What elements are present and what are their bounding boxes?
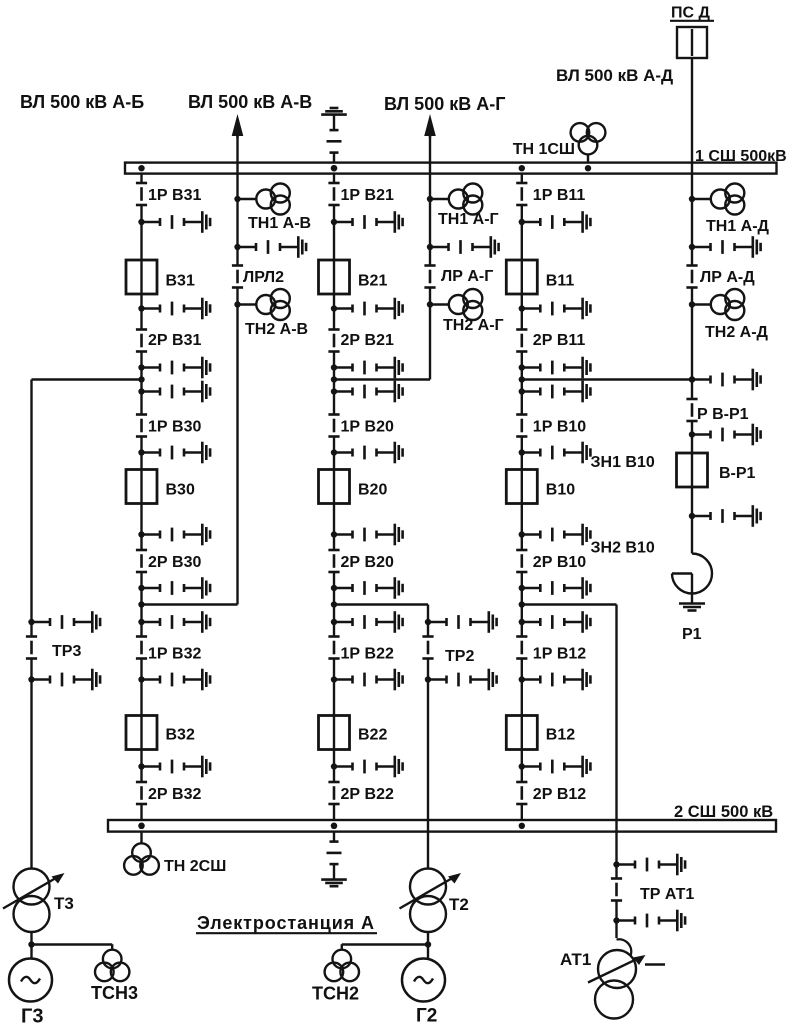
label 1Р В32 xyxy=(148,646,201,663)
wire АТ1 branch xyxy=(522,605,617,939)
svg-text:Г3: Г3 xyxy=(21,1006,43,1025)
station service transformer ТСН3 xyxy=(95,944,129,981)
node 3B xyxy=(519,601,525,607)
svg-text:В31: В31 xyxy=(166,273,195,290)
disconnector ТР АТ1 xyxy=(611,879,622,901)
grounding switch xyxy=(138,577,210,599)
label 1Р В31 xyxy=(148,187,201,204)
svg-text:В11: В11 xyxy=(546,273,575,290)
title ВЛ 500 кВ А-Г xyxy=(384,94,505,114)
grounding switch xyxy=(138,211,210,233)
label 1Р В21 xyxy=(341,187,394,204)
svg-text:ТСН3: ТСН3 xyxy=(91,983,138,1003)
label ЛР А-Д xyxy=(700,269,755,286)
label В-Р1 xyxy=(719,465,756,482)
grounding switch xyxy=(331,381,403,403)
svg-text:ЗН2 В10: ЗН2 В10 xyxy=(591,540,655,557)
voltage transformer ТН2 А-В xyxy=(234,289,289,320)
title Электростанция А xyxy=(196,913,377,933)
disconnector 1Р В22 xyxy=(328,637,339,659)
bus 2 grounding switch xyxy=(321,823,347,887)
svg-text:АТ1: АТ1 xyxy=(560,950,591,969)
wire Т2 branch xyxy=(334,605,428,869)
disconnector 2Р В11 xyxy=(516,330,527,352)
svg-text:2Р В30: 2Р В30 xyxy=(148,554,201,571)
breaker В32 xyxy=(126,716,157,750)
grounding switch xyxy=(28,611,100,633)
disconnector 1Р В30 xyxy=(136,415,147,437)
label Г2 xyxy=(416,1006,437,1027)
label 2Р В12 xyxy=(533,786,586,803)
grounding switch xyxy=(138,611,210,633)
svg-text:1Р В22: 1Р В22 xyxy=(341,646,394,663)
grounding switch xyxy=(519,211,591,233)
label Г3 xyxy=(21,1006,43,1028)
node column 1 on busbar 1 xyxy=(138,165,144,171)
svg-text:2Р В32: 2Р В32 xyxy=(148,786,201,803)
disconnector ТР3 xyxy=(26,637,37,659)
voltage transformer ТН 2СШ xyxy=(124,823,159,875)
node column 2 on busbar 1 xyxy=(331,165,337,171)
svg-text:1 СШ 500кВ: 1 СШ 500кВ xyxy=(695,148,787,165)
svg-text:1Р В10: 1Р В10 xyxy=(533,419,586,436)
svg-text:ТН1 А-Г: ТН1 А-Г xyxy=(438,211,499,228)
label 2Р В31 xyxy=(148,332,201,349)
grounding switch xyxy=(519,298,591,320)
wire column В11/В10/В12 xyxy=(521,173,523,820)
label ТН2 А-Г xyxy=(443,317,504,334)
breaker В-Р1 xyxy=(677,453,708,487)
reactor Р1 xyxy=(672,554,712,603)
svg-text:2 СШ 500 кВ: 2 СШ 500 кВ xyxy=(674,803,773,821)
label АТ1 xyxy=(560,950,591,969)
breaker В20 xyxy=(319,470,350,504)
label ТН2 А-Д xyxy=(705,324,769,341)
label ТСН2 xyxy=(312,984,359,1004)
svg-text:Т2: Т2 xyxy=(449,895,469,914)
svg-text:Т3: Т3 xyxy=(54,894,74,913)
grounding switch ЗН2 В10 xyxy=(519,524,591,546)
label ТР2 xyxy=(445,648,474,665)
grounding switch xyxy=(28,669,100,691)
grounding switch xyxy=(331,357,403,379)
svg-text:ТР АТ1: ТР АТ1 xyxy=(640,886,694,903)
wire Т3 branch xyxy=(32,380,142,869)
disconnector 2Р В22 xyxy=(328,782,339,804)
grounding switch xyxy=(138,357,210,379)
grounding switch xyxy=(331,211,403,233)
generator Г3 xyxy=(9,959,52,1002)
disconnector 2Р В12 xyxy=(516,782,527,804)
wire ВЛ 500 кВ А-В xyxy=(142,132,238,605)
svg-text:2Р В12: 2Р В12 xyxy=(533,786,586,803)
label 1Р В12 xyxy=(533,646,586,663)
label 2Р В11 xyxy=(533,332,586,349)
label В20 xyxy=(358,482,387,499)
voltage transformer ТН1 А-Г xyxy=(427,184,483,215)
svg-text:2Р В21: 2Р В21 xyxy=(341,332,394,349)
label ЗН1 В10 xyxy=(591,454,655,471)
svg-text:ВЛ 500 кВ А-В: ВЛ 500 кВ А-В xyxy=(188,92,312,112)
disconnector 2Р В32 xyxy=(136,782,147,804)
voltage transformer ТН2 А-Д xyxy=(689,289,745,320)
svg-text:ПС Д: ПС Д xyxy=(671,5,711,22)
grounding switch xyxy=(519,577,591,599)
grounding switch xyxy=(425,669,497,691)
busbar 2СШ 500кВ xyxy=(108,820,776,832)
svg-text:ЛР А-Д: ЛР А-Д xyxy=(700,269,755,286)
busbar 1СШ 500кВ xyxy=(125,163,777,174)
label В12 xyxy=(546,727,575,744)
grounding switch xyxy=(331,442,403,464)
node column 2 on busbar 2 xyxy=(331,823,337,829)
svg-text:ТСН2: ТСН2 xyxy=(312,984,359,1004)
disconnector 1Р В12 xyxy=(516,637,527,659)
ground of Р1 xyxy=(679,604,705,611)
label 2Р В20 xyxy=(341,554,394,571)
svg-text:1Р В12: 1Р В12 xyxy=(533,646,586,663)
svg-text:1Р В31: 1Р В31 xyxy=(148,187,201,204)
svg-text:ТН 2СШ: ТН 2СШ xyxy=(164,858,226,875)
label ТН1 А-Д xyxy=(706,218,770,235)
grounding switch xyxy=(519,669,591,691)
svg-text:ВЛ 500 кВ А-Б: ВЛ 500 кВ А-Б xyxy=(20,92,144,112)
label 1Р В20 xyxy=(341,419,394,436)
grounding switch xyxy=(138,442,210,464)
disconnector 2Р В31 xyxy=(136,330,147,352)
disconnector Р В-Р1 xyxy=(686,399,697,421)
breaker В31 xyxy=(126,260,157,294)
label ТН 1СШ xyxy=(513,141,575,158)
grounding switch xyxy=(519,756,591,778)
grounding switch xyxy=(331,611,403,633)
svg-text:ТН1 А-В: ТН1 А-В xyxy=(248,215,311,232)
label ЛРЛ2 xyxy=(243,269,284,286)
voltage transformer ТН2 А-Г xyxy=(427,289,483,320)
wire column В31/В30/В32 xyxy=(140,173,142,820)
disconnector 1Р В11 xyxy=(516,183,527,205)
disconnector 1Р В10 xyxy=(516,415,527,437)
grounding switch xyxy=(138,756,210,778)
line arrow ВЛ А-В xyxy=(232,114,244,138)
wire ВЛ 500 кВ А-Г xyxy=(334,132,430,380)
svg-text:ТН2 А-Д: ТН2 А-Д xyxy=(705,324,769,341)
label В10 xyxy=(546,482,575,499)
label 1Р В10 xyxy=(533,419,586,436)
title ВЛ 500 кВ А-Б xyxy=(20,92,144,112)
svg-text:ВЛ 500 кВ А-Д: ВЛ 500 кВ А-Д xyxy=(556,66,673,85)
svg-text:ВЛ 500 кВ А-Г: ВЛ 500 кВ А-Г xyxy=(384,94,505,114)
line arrow ВЛ А-Г xyxy=(424,114,436,138)
svg-text:В32: В32 xyxy=(166,727,195,744)
grounding switch xyxy=(331,756,403,778)
svg-text:Г2: Г2 xyxy=(416,1006,437,1025)
node 3A xyxy=(519,376,525,382)
disconnector 1Р В31 xyxy=(136,183,147,205)
label В32 xyxy=(166,727,195,744)
node 2A xyxy=(331,376,337,382)
line disconnector ЛР А-Д xyxy=(686,266,697,288)
disconnector 2Р В10 xyxy=(516,550,527,572)
node column 1 on busbar 2 xyxy=(138,823,144,829)
label Т3 xyxy=(54,894,74,913)
svg-text:1Р В30: 1Р В30 xyxy=(148,419,201,436)
title ВЛ 500 кВ А-В xyxy=(188,92,312,112)
label В11 xyxy=(546,273,575,290)
node 1A xyxy=(138,376,144,382)
label busbar 1 xyxy=(695,148,787,165)
title ВЛ 500 кВ А-Д xyxy=(556,66,673,85)
svg-text:1Р В32: 1Р В32 xyxy=(148,646,201,663)
disconnector 1Р В20 xyxy=(328,415,339,437)
grounding switch xyxy=(331,577,403,599)
grounding switch xyxy=(427,236,499,258)
label ТР АТ1 xyxy=(640,886,694,903)
label ЗН2 В10 xyxy=(591,540,655,557)
grounding switch xyxy=(331,524,403,546)
label В30 xyxy=(166,482,195,499)
disconnector 1Р В21 xyxy=(328,183,339,205)
svg-text:1Р В20: 1Р В20 xyxy=(341,419,394,436)
label ТН2 А-В xyxy=(245,321,308,338)
breaker В10 xyxy=(506,470,537,504)
svg-text:В20: В20 xyxy=(358,482,387,499)
wire Т3-Г3 xyxy=(28,932,112,959)
node 2B xyxy=(331,601,337,607)
disconnector 2Р В30 xyxy=(136,550,147,572)
label 2Р В10 xyxy=(533,554,586,571)
node column 3 on busbar 2 xyxy=(519,823,525,829)
svg-text:В12: В12 xyxy=(546,727,575,744)
svg-text:2Р В11: 2Р В11 xyxy=(533,332,586,349)
svg-text:2Р В20: 2Р В20 xyxy=(341,554,394,571)
wire Т2-Г2 xyxy=(342,932,431,959)
svg-text:ТН 1СШ: ТН 1СШ xyxy=(513,141,575,158)
label ТР3 xyxy=(52,643,81,660)
label В22 xyxy=(358,727,387,744)
grounding switch xyxy=(519,611,591,633)
label Т2 xyxy=(449,895,469,914)
label 1Р В11 xyxy=(533,187,586,204)
wire column В21/В20/В22 xyxy=(333,173,335,820)
svg-text:ЛР А-Г: ЛР А-Г xyxy=(441,268,493,285)
grounding switch xyxy=(331,298,403,320)
grounding switch xyxy=(138,524,210,546)
breaker В11 xyxy=(506,260,537,294)
grounding switch xyxy=(689,424,761,446)
bus 1 grounding switch xyxy=(321,108,347,171)
breaker В12 xyxy=(506,716,537,750)
svg-text:Р В-Р1: Р В-Р1 xyxy=(697,406,749,423)
grounding switch xyxy=(138,669,210,691)
label ТН1 А-В xyxy=(248,215,311,232)
breaker В30 xyxy=(126,470,157,504)
label ТН1 А-Г xyxy=(438,211,499,228)
label 1Р В22 xyxy=(341,646,394,663)
node column 3 on busbar 1 xyxy=(519,165,525,171)
wire ВЛ 500 кВ А-Д xyxy=(522,58,692,554)
disconnector ТР2 xyxy=(422,637,433,659)
transformer Т2 xyxy=(400,869,462,933)
breaker В21 xyxy=(319,260,350,294)
svg-text:В21: В21 xyxy=(358,273,387,290)
svg-text:2Р В22: 2Р В22 xyxy=(341,786,394,803)
grounding switch xyxy=(689,236,761,258)
svg-text:В-Р1: В-Р1 xyxy=(719,465,756,482)
svg-text:В22: В22 xyxy=(358,727,387,744)
label Р В-Р1 xyxy=(697,406,749,423)
label ТН 2СШ xyxy=(164,858,226,875)
label ЛР А-Г xyxy=(441,268,493,285)
voltage transformer ТН1 А-В xyxy=(234,184,289,215)
disconnector 2Р В20 xyxy=(328,550,339,572)
svg-text:В30: В30 xyxy=(166,482,195,499)
substation ПС Д xyxy=(677,27,707,58)
grounding switch xyxy=(519,381,591,403)
svg-text:ТР2: ТР2 xyxy=(445,648,474,665)
autotransformer АТ1 xyxy=(588,939,665,1018)
label В21 xyxy=(358,273,387,290)
grounding switch xyxy=(519,357,591,379)
label 2Р В32 xyxy=(148,786,201,803)
grounding switch xyxy=(613,854,685,876)
svg-text:В10: В10 xyxy=(546,482,575,499)
station service transformer ТСН2 xyxy=(325,944,359,981)
label 2Р В21 xyxy=(341,332,394,349)
disconnector 2Р В21 xyxy=(328,330,339,352)
svg-text:Р1: Р1 xyxy=(682,626,702,643)
node 1B xyxy=(138,601,144,607)
breaker В22 xyxy=(319,716,350,750)
generator Г2 xyxy=(402,959,445,1002)
node В-Р1 tap xyxy=(689,376,695,382)
line disconnector ЛР А-Г xyxy=(424,266,435,288)
svg-text:ТР3: ТР3 xyxy=(52,643,81,660)
voltage transformer ТН1 А-Д xyxy=(689,184,745,215)
voltage transformer ТН 1СШ xyxy=(571,123,606,171)
svg-text:ЛРЛ2: ЛРЛ2 xyxy=(243,269,284,286)
svg-text:ТН2 А-Г: ТН2 А-Г xyxy=(443,317,504,334)
svg-text:1Р В11: 1Р В11 xyxy=(533,187,586,204)
grounding switch xyxy=(613,910,685,932)
svg-text:1Р В21: 1Р В21 xyxy=(341,187,394,204)
line disconnector ЛРЛ2 xyxy=(232,266,243,288)
label Р1 xyxy=(682,626,702,643)
svg-text:ЗН1 В10: ЗН1 В10 xyxy=(591,454,655,471)
grounding switch xyxy=(234,236,306,258)
grounding switch xyxy=(689,505,761,527)
grounding switch xyxy=(689,369,761,391)
svg-text:ТН2 А-В: ТН2 А-В xyxy=(245,321,308,338)
transformer Т3 xyxy=(3,869,65,933)
svg-text:2Р В10: 2Р В10 xyxy=(533,554,586,571)
grounding switch xyxy=(425,611,497,633)
label 2Р В30 xyxy=(148,554,201,571)
grounding switch xyxy=(331,669,403,691)
svg-text:ТН1 А-Д: ТН1 А-Д xyxy=(706,218,770,235)
title ПС Д xyxy=(670,5,714,22)
label 1Р В30 xyxy=(148,419,201,436)
label 2Р В22 xyxy=(341,786,394,803)
disconnector 1Р В32 xyxy=(136,637,147,659)
grounding switch ЗН1 В10 xyxy=(519,442,591,464)
grounding switch xyxy=(138,381,210,403)
grounding switch xyxy=(138,298,210,320)
svg-text:2Р В31: 2Р В31 xyxy=(148,332,201,349)
label ТСН3 xyxy=(91,983,138,1003)
label busbar 2 xyxy=(674,803,773,821)
label В31 xyxy=(166,273,195,290)
svg-text:Электростанция А: Электростанция А xyxy=(197,913,375,933)
